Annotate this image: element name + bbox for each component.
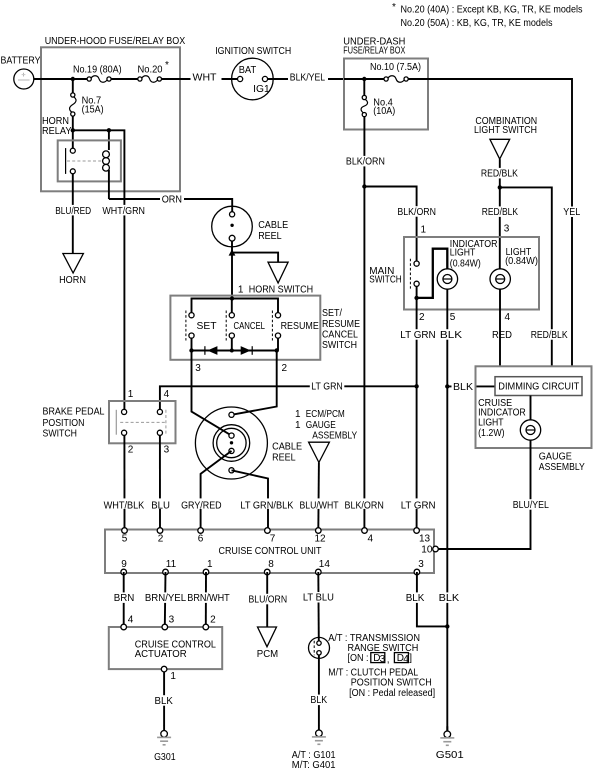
node bus right [275,348,279,352]
svg-text:ECM/PCM: ECM/PCM [306,409,345,420]
svg-text:7: 7 [270,533,276,544]
svg-text:WHT/BLK: WHT/BLK [104,500,145,511]
svg-text:REEL: REEL [258,231,282,242]
svg-text:BAT: BAT [239,65,257,76]
wire branch to horn switch [232,253,278,263]
svg-text:HORN: HORN [59,275,86,286]
wire label LT GRN mid [310,381,345,393]
svg-text:*: * [392,2,396,13]
resume label [281,321,319,332]
pin 2 resume label [282,363,288,374]
wire label GRY/RED [180,498,224,511]
wire label RED/BLK above gauge [529,329,569,341]
svg-text:4: 4 [368,533,374,544]
wire relay top bus [73,130,125,411]
svg-text:REEL: REEL [272,452,296,463]
brake pin labels [128,389,170,455]
fuse No.20 label [138,60,170,75]
wire into under-dash box [344,78,384,80]
wire main switch to indicator bulb [417,249,448,298]
wire bottom bus [192,338,279,350]
wire label BLU/YEL [511,499,550,511]
svg-text:9: 9 [121,559,127,570]
wire RED/BLK branch to dimming circuit [500,187,552,366]
G501 label [436,750,464,761]
horn relay label [42,116,72,137]
svg-text:POSITION: POSITION [43,418,85,429]
pin labels 2 5 4 [419,312,511,323]
set/resume/cancel right label [322,308,360,351]
wire label WHT/GRN [101,205,147,217]
set switch [186,311,194,341]
G101/G401 label [292,750,336,771]
wire fuse20 to ignition switch [161,78,237,80]
resume switch [272,311,280,341]
svg-text:BLK/ORN: BLK/ORN [346,157,385,168]
svg-text:No.20 (50A) : KB, KG, TR, KE m: No.20 (50A) : KB, KG, TR, KE models [401,18,553,29]
brake pedal switch contacts [116,409,166,435]
svg-text:1: 1 [128,389,134,400]
diode left [205,346,218,355]
svg-text:BLK/ORN: BLK/ORN [397,207,436,218]
wire fuse10 to YEL corner [408,79,572,366]
wire BRN/WHT pin1 to actuator [205,572,207,627]
pin 13 cruise top [414,528,431,545]
wire resume pin2 to cable reel [232,351,277,415]
wire BLK from bulb1 down to G501 [446,289,448,731]
cable reel 2 [195,407,267,479]
wire label BLK/YEL [288,72,328,84]
wire label BRN [112,592,136,604]
pin 8 cruise bottom [264,559,274,575]
svg-text:1: 1 [207,559,213,570]
svg-text:2: 2 [158,533,164,544]
cruise indicator bulb (1.2W) [520,420,540,440]
node top bus [230,296,234,300]
svg-text:RESUME: RESUME [322,319,360,330]
node junction main/No.7 [71,77,75,81]
svg-text:2: 2 [210,615,216,626]
svg-text:(1.2W): (1.2W) [478,428,505,439]
cancel switch [226,311,234,341]
svg-text:ACTUATOR: ACTUATOR [135,649,187,660]
dimming circuit box [495,377,582,396]
svg-text:CANCEL: CANCEL [234,321,266,332]
svg-text:YEL: YEL [563,207,580,218]
node bus cancel [230,349,234,353]
node relay bus left [71,128,75,132]
wire label BLK below box [438,329,463,341]
wire BLU brake pin3 to cruise pin2 [159,435,161,530]
actuator pin 1 [161,666,176,682]
svg-text:]: ] [409,653,412,664]
range switch note ON D3 D4 [348,653,413,666]
indicator light labels [450,239,498,269]
ground G101/G401 [312,725,326,744]
main switch contacts [410,259,419,289]
svg-text:4: 4 [128,615,134,626]
svg-text:BLK: BLK [440,330,463,341]
wire label BLK actuator [153,695,174,707]
svg-text:12: 12 [315,533,327,544]
wire BLK/ORN branch to main switch pin 1 [364,187,416,262]
svg-text:G501: G501 [436,750,464,761]
pin 7 cruise top [265,528,276,545]
wire label LT GRN [399,329,437,341]
svg-text:2: 2 [128,445,134,456]
svg-text:,: , [387,655,390,666]
wire fuse19 to fuse20 [111,78,138,80]
svg-text:RESUME: RESUME [281,321,319,332]
svg-text:6: 6 [198,533,204,544]
svg-text:1: 1 [295,409,301,420]
pcm label [257,649,278,660]
cancel label [234,321,266,332]
combination light switch connector [490,139,510,159]
pcm connector [258,627,277,647]
svg-text:BLK: BLK [439,593,460,604]
svg-text:BRN/YEL: BRN/YEL [145,593,187,604]
cable reel 1 [212,206,253,247]
light labels [505,247,538,267]
wire label LT GRN above pin13 [399,498,436,511]
under-dash fuse/relay box [344,59,428,130]
svg-text:CANCEL: CANCEL [322,329,358,340]
wire LT GRN/BLK cable reel to cruise pin7 [232,470,269,530]
svg-text:UNDER-HOOD FUSE/RELAY BOX: UNDER-HOOD FUSE/RELAY BOX [45,36,186,47]
horn connector [63,254,84,274]
range switch note [328,633,420,654]
horn relay coil [103,151,110,199]
ground G301 [157,726,171,745]
svg-text:BATTERY: BATTERY [1,56,41,67]
svg-text:3: 3 [504,223,510,234]
wire WHT/BLK brake pin2 to cruise pin5 [123,435,125,530]
svg-text:ASSEMBLY: ASSEMBLY [312,430,357,441]
note line 1 [401,5,583,16]
svg-text:LT GRN: LT GRN [311,381,343,392]
wire label BLK/ORN above cruise pin 4 [343,498,385,511]
wire label RED [491,329,516,341]
svg-text:CABLE: CABLE [272,442,302,453]
pin 4 cruise top [362,528,374,545]
node bus left [189,348,193,352]
combination light switch label [474,116,537,136]
svg-text:WHT: WHT [193,73,217,84]
wire set pin3 to cable reel [192,351,232,436]
svg-text:BLK: BLK [310,695,327,706]
wire dimming to cruise indicator bulb [530,396,532,421]
note line 2 [401,18,553,29]
svg-text:LT GRN: LT GRN [400,330,435,341]
node junction BLK/ORN branch [362,184,366,188]
wire label BLK pin3 [404,592,426,604]
svg-text:LT BLU: LT BLU [303,592,334,603]
svg-text:(0.84W): (0.84W) [505,256,538,267]
wire BLU/ORN pin8 to PCM [266,572,268,627]
wire label BLU/RED [54,205,93,217]
svg-text:SWITCH: SWITCH [369,275,401,286]
main switch label [369,266,401,286]
under-dash fuse/relay box label [343,37,405,57]
svg-text:[ON :: [ON : [348,653,369,664]
wire coil top [108,130,110,150]
svg-text:G301: G301 [154,752,176,763]
horn switch connector [268,262,288,283]
svg-text:4: 4 [403,654,409,665]
fuse No.20 [138,76,162,82]
wire label BLU/WHT [298,498,340,511]
svg-text:13: 13 [419,533,431,544]
svg-text:FUSE/RELAY BOX: FUSE/RELAY BOX [343,46,405,57]
svg-text:BLK: BLK [155,696,174,707]
wire LT BLU pin14 to range switch [317,572,320,641]
horn relay box [58,140,121,181]
svg-text:GAUGE: GAUGE [539,451,572,462]
brake pedal switch labels [43,407,105,440]
svg-text:RED/BLK: RED/BLK [482,207,519,218]
cruise control actuator label [135,640,217,661]
battery label [1,56,41,67]
svg-text:No.10 (7.5A): No.10 (7.5A) [370,62,421,73]
svg-text:[ON : Pedal released]: [ON : Pedal released] [349,688,435,699]
pin 1 main switch [421,224,427,235]
clutch pedal note [328,668,435,699]
svg-text:BRN: BRN [114,593,135,604]
node junction LT GRN [414,384,418,388]
svg-text:BLU/ORN: BLU/ORN [249,594,288,605]
wire label BLK/ORN upper [344,156,386,168]
ground G501 [440,726,454,745]
svg-text:3: 3 [169,615,175,626]
pin 1 cruise bottom [203,559,213,575]
wire label RED/BLK mid [480,206,520,218]
cable reel 2 label [272,442,302,464]
svg-text:1: 1 [421,224,427,235]
main switch / indicator box [404,237,539,310]
svg-text:BLK: BLK [406,593,425,604]
svg-text:ASSEMBLY: ASSEMBLY [539,462,585,473]
pin 2 cruise top [157,528,164,545]
ecm/pcm connector [309,442,330,462]
svg-text:(15A): (15A) [82,104,104,115]
fuse No.7 [70,93,76,116]
pin 3 set label [195,363,201,374]
svg-text:4: 4 [505,312,511,323]
wire BLK range switch to G101 [318,655,320,726]
pin 10 cruise right [421,545,438,556]
wire BLK/ORN fuse4 down to cruise pin 4 [363,117,365,531]
fuse No.19 label [73,64,122,75]
svg-text:LT GRN: LT GRN [401,500,436,511]
node junction RED/BLK branch [498,185,502,189]
svg-text:10: 10 [421,545,433,556]
svg-text:*: * [165,60,169,71]
wire LT GRN main switch pin 2 down [416,300,418,531]
svg-text:RED: RED [492,330,512,341]
wire BLU/YEL bulb to cruise pin 10 [437,440,531,549]
set label [197,321,217,332]
svg-text:8: 8 [268,559,274,570]
svg-text:3: 3 [418,559,424,570]
svg-text:GRY/RED: GRY/RED [181,500,222,511]
pin 5 cruise top [122,528,128,545]
wire label RED/BLK upper [479,168,519,180]
svg-text:SWITCH: SWITCH [322,340,357,351]
svg-text:LIGHT: LIGHT [450,248,476,259]
horn relay contact [66,148,103,174]
svg-text:1: 1 [170,671,176,682]
svg-text:No.20: No.20 [138,64,163,75]
svg-text:IGNITION SWITCH: IGNITION SWITCH [215,46,291,57]
svg-text:LT GRN/BLK: LT GRN/BLK [240,500,293,511]
svg-text:BLU: BLU [151,500,170,511]
wire ORN relay to cable reel [109,199,232,212]
node relay bus right [107,128,111,132]
pin 9 cruise bottom [121,559,127,575]
gauge assembly label [539,451,585,473]
fuse No.7 label [82,96,104,116]
transmission range switch [309,637,330,658]
svg-text:11: 11 [166,559,177,570]
cable reel 1 label [258,220,288,242]
diode right [241,346,253,355]
cruise indicator light labels [478,398,526,439]
wire BLK branch to dimming circuit [447,385,495,387]
svg-text:BLK: BLK [453,382,473,393]
svg-text:14: 14 [319,559,331,570]
wire fuse7 to relay bus [72,116,74,148]
svg-text:5: 5 [450,312,456,323]
wire label LT BLU [301,592,335,603]
svg-text:BLU/YEL: BLU/YEL [513,500,549,511]
node junction BLK G501 [445,624,449,628]
light bulb [490,269,510,289]
svg-text:3: 3 [195,363,201,374]
svg-text:(10A): (10A) [373,106,395,117]
wire RED/BLK comb switch to bulb pin 3 [499,159,501,269]
svg-text:SET/: SET/ [322,308,342,319]
wire label WHT/BLK [102,498,147,511]
svg-text:5: 5 [122,533,128,544]
wire BRN pin9 to actuator [123,572,125,627]
svg-text:3: 3 [164,445,170,456]
pin 12 cruise top [315,528,327,545]
node junction BLK to dimming [445,384,449,388]
svg-text:2: 2 [419,312,425,323]
fuse No.4 label [373,97,395,117]
wire junction to fuse No.7 [72,79,74,93]
pin 6 cruise top [198,528,204,545]
svg-text:IG1: IG1 [253,84,270,95]
svg-text:BLK/ORN: BLK/ORN [345,500,384,511]
svg-text:BRAKE PEDAL: BRAKE PEDAL [43,407,105,418]
pin 3 cruise bottom [414,559,424,575]
svg-text:BLU/RED: BLU/RED [55,206,91,217]
arrow junction [229,249,236,255]
pin 3 light [504,223,510,234]
svg-text:LIGHT SWITCH: LIGHT SWITCH [474,125,537,136]
battery [14,69,34,89]
dimming circuit label [498,382,579,393]
wire label BLK/ORN to main switch [396,206,437,218]
svg-text:RELAY: RELAY [42,126,72,137]
wire bulb2 to gauge box (RED) [499,289,501,366]
wire label LT GRN/BLK [239,498,295,511]
ignition switch label [215,46,291,57]
indicator light bulb [437,269,457,289]
cruise control unit box [105,530,434,574]
under-hood fuse/relay box label [45,36,186,47]
svg-text:BLU/WHT: BLU/WHT [300,500,339,511]
wire BRN/YEL pin11 to actuator [164,572,167,627]
wire BLU/RED relay to horn [72,174,74,254]
wire cable reel to switch bus [231,241,233,299]
horn label [59,275,86,286]
svg-text:CABLE: CABLE [258,220,288,231]
svg-text:SWITCH: SWITCH [43,428,78,439]
wire label BRN/WHT [186,592,231,604]
note asterisk [392,2,396,13]
wire GRY/RED cable reel to cruise pin6 [201,451,232,531]
wire label YEL [562,207,584,219]
gauge assembly box [476,366,592,448]
svg-text:1: 1 [238,284,244,295]
wire label ORN [160,194,184,206]
under-hood fuse/relay box [41,47,180,191]
node junction No.4 tap [362,77,366,81]
actuator pins [121,615,216,630]
brake pedal position switch box [109,401,176,443]
svg-text:2: 2 [282,363,288,374]
svg-text:DIMMING CIRCUIT: DIMMING CIRCUIT [498,382,579,393]
wire label BRN/YEL [144,592,188,604]
horn switch label [238,284,313,295]
fuse No.10 [384,76,408,82]
svg-text:PCM: PCM [257,649,278,660]
wire label BLK at range switch [309,695,329,707]
cruise control unit label [219,546,322,557]
svg-text:BRN/WHT: BRN/WHT [187,593,229,604]
wire BLK pin3 down [417,572,447,626]
wire ignition to under-dash box [268,78,345,80]
svg-text:No.20 (40A) : Except KB, KG, T: No.20 (40A) : Except KB, KG, TR, KE mode… [401,5,583,16]
node main switch output [414,296,418,300]
svg-text:(0.84W): (0.84W) [450,258,481,269]
pin 14 cruise bottom [316,559,331,575]
wire label WHT [191,72,222,84]
svg-text:HORN SWITCH: HORN SWITCH [249,284,314,295]
svg-text:ORN: ORN [162,195,182,206]
svg-text:M/T: G401: M/T: G401 [292,760,336,771]
wire battery to fuse No.19 [34,78,88,80]
ignition switch [232,58,274,100]
cruise control actuator box [109,627,222,669]
wire BLU/WHT ecm connector to cruise pin12 [317,463,320,531]
wire label BLU/ORN [247,594,289,606]
svg-text:CRUISE CONTROL UNIT: CRUISE CONTROL UNIT [219,546,322,557]
ecm/pcm gauge labels [295,409,357,441]
svg-text:4: 4 [164,389,170,400]
wire BLK actuator to G301 [163,672,165,726]
wire main switch lower contact to node [416,286,418,298]
wire junction to fuse No.4 [363,79,365,96]
fuse No.19 [87,76,111,82]
svg-text:RED/BLK: RED/BLK [531,330,568,341]
fuse No.4 [361,95,367,116]
G301 label [154,752,176,763]
svg-text:BLK/YEL: BLK/YEL [290,73,326,84]
